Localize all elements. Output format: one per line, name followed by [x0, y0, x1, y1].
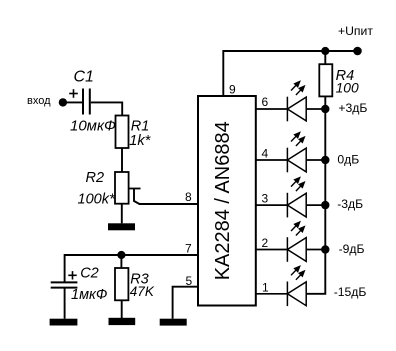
LED5: [287, 265, 306, 306]
svg-text:C2: C2: [80, 265, 99, 281]
junction node R4 top: [321, 47, 329, 55]
junction node LED4: [321, 245, 329, 253]
capacitor C1: [83, 89, 90, 115]
wire R2 to ground: [121, 204, 123, 224]
svg-text:100k*: 100k*: [78, 191, 116, 207]
junction node pin7: [117, 251, 125, 259]
LED1: [287, 80, 306, 121]
ground (C2): [50, 319, 78, 326]
svg-text:7: 7: [185, 242, 192, 256]
ground (R2): [108, 223, 135, 230]
capacitor C2 polarity +: [68, 271, 76, 279]
LED anode bus wire: [306, 109, 325, 294]
input terminal node: [59, 98, 67, 106]
svg-text:6: 6: [262, 95, 269, 109]
svg-text:R2: R2: [86, 170, 105, 186]
svg-text:2: 2: [262, 236, 269, 250]
capacitor C1 polarity +: [69, 89, 78, 98]
svg-text:3: 3: [262, 192, 269, 206]
ground (R3): [109, 318, 136, 325]
LED2: [287, 131, 306, 172]
wire input to C1: [63, 101, 82, 103]
wire pin 6 to LED1: [256, 108, 288, 110]
wire R2 wiper to IC pin 8: [134, 189, 198, 205]
op-amp IC U1 KA2284/AN6884: [198, 96, 256, 306]
wire IC pin 7: [65, 254, 198, 256]
wire pin 9 to +U rail: [223, 51, 357, 96]
wire junction to R4: [324, 51, 326, 64]
svg-text:47K: 47K: [130, 284, 155, 299]
svg-text:4: 4: [262, 147, 269, 161]
supply terminal node: [353, 47, 362, 56]
wire pin 3 to LED3: [256, 204, 288, 206]
wire pin7 to C2: [64, 254, 66, 282]
wire junction to R3: [120, 255, 122, 268]
wire LED4 to bus: [306, 249, 325, 251]
wire R4 to LED bus: [324, 96, 326, 109]
wire C1 to R1: [91, 102, 122, 115]
wire C2 to ground: [64, 288, 66, 319]
wire LED2 to bus: [306, 159, 325, 161]
wire R3 to ground: [121, 300, 123, 318]
junction node LED2: [321, 156, 329, 164]
svg-text:вход: вход: [27, 95, 51, 107]
LED3: [287, 176, 306, 217]
junction node LED1: [321, 105, 329, 113]
wire LED3 to bus: [306, 204, 325, 206]
svg-text:-9дБ: -9дБ: [339, 242, 365, 256]
svg-text:9: 9: [229, 83, 236, 97]
wire pin 2 to LED4: [256, 249, 288, 251]
svg-text:+Uпит: +Uпит: [338, 24, 373, 38]
svg-text:1: 1: [262, 281, 269, 295]
svg-text:-3дБ: -3дБ: [337, 197, 363, 211]
LED4: [287, 221, 306, 262]
svg-text:C1: C1: [74, 69, 94, 86]
capacitor C2: [51, 282, 78, 287]
ground (pin 5): [160, 319, 187, 326]
resistor R4: [319, 64, 332, 96]
svg-text:KA2284 / AN6884: KA2284 / AN6884: [212, 121, 234, 280]
junction node LED3: [321, 201, 329, 209]
svg-text:1k*: 1k*: [129, 133, 151, 149]
wire IC pin 5 to ground: [173, 287, 198, 319]
svg-text:10мкФ: 10мкФ: [70, 118, 116, 135]
wire pin 4 to LED2: [256, 159, 288, 161]
svg-text:+3дБ: +3дБ: [338, 101, 367, 115]
resistor R3: [115, 268, 128, 300]
svg-text:-15дБ: -15дБ: [334, 285, 367, 299]
wire LED1 to bus: [306, 108, 325, 110]
wire pin 1 to LED5: [256, 293, 288, 295]
svg-text:8: 8: [185, 190, 192, 204]
svg-text:5: 5: [186, 274, 193, 288]
svg-text:100: 100: [336, 81, 359, 96]
svg-text:0дБ: 0дБ: [337, 153, 359, 167]
resistor R1: [116, 116, 129, 149]
wire R1 to R2: [121, 148, 123, 172]
potentiometer R2: [115, 172, 141, 204]
svg-text:1мкФ: 1мкФ: [71, 287, 107, 303]
